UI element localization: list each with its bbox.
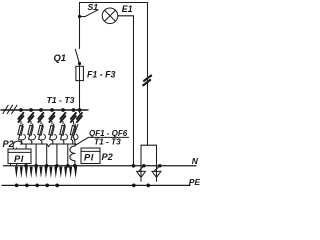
node on N bus x=36.1 bbox=[34, 164, 38, 168]
surge arrester at x=141 bbox=[137, 164, 146, 181]
node QF3 tap on bus bbox=[39, 108, 43, 112]
svg-text:T1 - T3: T1 - T3 bbox=[47, 95, 75, 105]
outgoing feeder arrow 13 bbox=[74, 167, 77, 179]
node on PE bus x=133.8 bbox=[132, 184, 136, 188]
current transformer T1-T3 bbox=[70, 137, 75, 166]
node on N bus x=74.9 bbox=[73, 164, 77, 168]
plug contacts QF2 bbox=[28, 113, 33, 122]
wire tap 2 line A to N bus bbox=[35, 144, 37, 166]
lamp E1 bbox=[102, 8, 118, 24]
plug contacts QF3 bbox=[38, 113, 43, 122]
node on N bus x=56.9 bbox=[55, 164, 59, 168]
three-phase slashes bbox=[3, 105, 17, 113]
label QF1 - QF6 over T1 - T3 with leader bbox=[76, 129, 129, 146]
svg-text:F1 - F3: F1 - F3 bbox=[87, 69, 115, 79]
outgoing feeder arrow 1 bbox=[15, 167, 18, 179]
meter box right bbox=[81, 148, 100, 164]
breaker QF2 bbox=[28, 122, 36, 145]
node on PE bus x=57.2 bbox=[55, 184, 59, 188]
meter box left bbox=[8, 149, 31, 164]
svg-text:N: N bbox=[192, 156, 199, 166]
node on N bus x=26 bbox=[24, 164, 28, 168]
N bus bbox=[4, 165, 197, 167]
wire S1 tap stub bbox=[80, 16, 85, 18]
node QF5 tap on bus bbox=[61, 108, 65, 112]
node Q1 bottom contact bbox=[78, 62, 81, 65]
outgoing feeder arrow 7 bbox=[44, 167, 47, 179]
svg-text:P2: P2 bbox=[102, 152, 114, 162]
stub hook to box bbox=[16, 148, 18, 166]
svg-text:PI: PI bbox=[14, 154, 24, 164]
node on PE bus x=26.9 bbox=[25, 184, 29, 188]
CT hook at left meter bbox=[13, 141, 22, 149]
node on PE bus x=16.6 bbox=[15, 184, 19, 188]
wire top horizontal bbox=[80, 2, 148, 4]
svg-text:PE: PE bbox=[189, 177, 200, 187]
breaker QF5 bbox=[60, 122, 68, 145]
node QF2 tap on bus bbox=[29, 108, 33, 112]
bus horizontal bbox=[1, 109, 88, 111]
fuse F1-F3 bbox=[76, 66, 84, 80]
svg-text:S1: S1 bbox=[88, 2, 99, 12]
breaker QF1 bbox=[18, 122, 26, 145]
outgoing feeder arrow 5 bbox=[35, 167, 38, 179]
outgoing feeder arrow 4 bbox=[30, 167, 33, 179]
wire tap 1 line A to N bus bbox=[25, 144, 27, 166]
stub box bottom left bbox=[10, 164, 12, 166]
plug contacts QF6 bbox=[71, 113, 76, 122]
wire lamp to N drop bbox=[118, 16, 134, 166]
wire collector line with break notch bbox=[21, 144, 77, 147]
surge arrester at x=156.5 bbox=[152, 164, 161, 181]
arrester feed riser bbox=[147, 3, 149, 146]
node on PE bus x=148.3 bbox=[146, 184, 150, 188]
svg-text:P2: P2 bbox=[3, 139, 15, 149]
wire tap 3 line A to N bus bbox=[46, 144, 48, 166]
outgoing feeder arrow 2 bbox=[20, 167, 23, 179]
outgoing feeder arrow 6 bbox=[39, 167, 42, 179]
svg-text:T1 - T3: T1 - T3 bbox=[94, 136, 121, 146]
node on N bus x=67.8 bbox=[66, 164, 70, 168]
switch Q1 bbox=[75, 49, 79, 63]
outgoing feeder arrow 9 bbox=[54, 167, 57, 179]
plug contacts QF4 bbox=[49, 113, 54, 122]
wire riser through fuse down to bus bbox=[79, 64, 81, 111]
outgoing feeder arrow 11 bbox=[64, 167, 67, 179]
svg-text:E1: E1 bbox=[122, 4, 133, 14]
node on PE bus x=47.2 bbox=[45, 184, 49, 188]
branch 7 plug contacts bbox=[77, 113, 82, 122]
break marks on feed riser bbox=[143, 76, 151, 86]
outgoing feeder arrow 12 bbox=[69, 167, 72, 179]
node on N bus x=46.7 bbox=[45, 164, 49, 168]
node main feed on bus bbox=[78, 108, 82, 112]
outgoing feeder arrow 8 bbox=[49, 167, 52, 179]
node on N bus x=133.5 bbox=[132, 164, 136, 168]
node QF4 tap on bus bbox=[50, 108, 54, 112]
node S1 tap junction bbox=[78, 15, 81, 18]
switch S1 bbox=[85, 10, 99, 17]
wire main riser upper segment bbox=[79, 3, 81, 49]
wire tap 5 line A to N bus bbox=[67, 144, 69, 166]
wire tap 4 line A to N bus bbox=[56, 144, 58, 166]
node on PE bus x=37.2 bbox=[35, 184, 39, 188]
node QF6 tap on bus bbox=[72, 108, 76, 112]
outgoing feeder arrow 3 bbox=[25, 167, 28, 179]
breaker QF4 bbox=[49, 122, 57, 145]
plug contacts QF5 bbox=[60, 113, 65, 122]
breaker QF3 bbox=[38, 122, 46, 145]
plug contacts QF1 bbox=[18, 113, 23, 122]
PE bus bbox=[2, 184, 190, 186]
arrester header bbox=[141, 145, 157, 166]
outgoing feeder arrow 10 bbox=[59, 167, 62, 179]
breaker QF6 bbox=[70, 122, 78, 145]
svg-text:Q1: Q1 bbox=[54, 52, 67, 63]
node QF1 tap on bus bbox=[19, 108, 23, 112]
svg-text:PI: PI bbox=[84, 153, 94, 163]
branch 7 switch blade bbox=[79, 110, 81, 113]
